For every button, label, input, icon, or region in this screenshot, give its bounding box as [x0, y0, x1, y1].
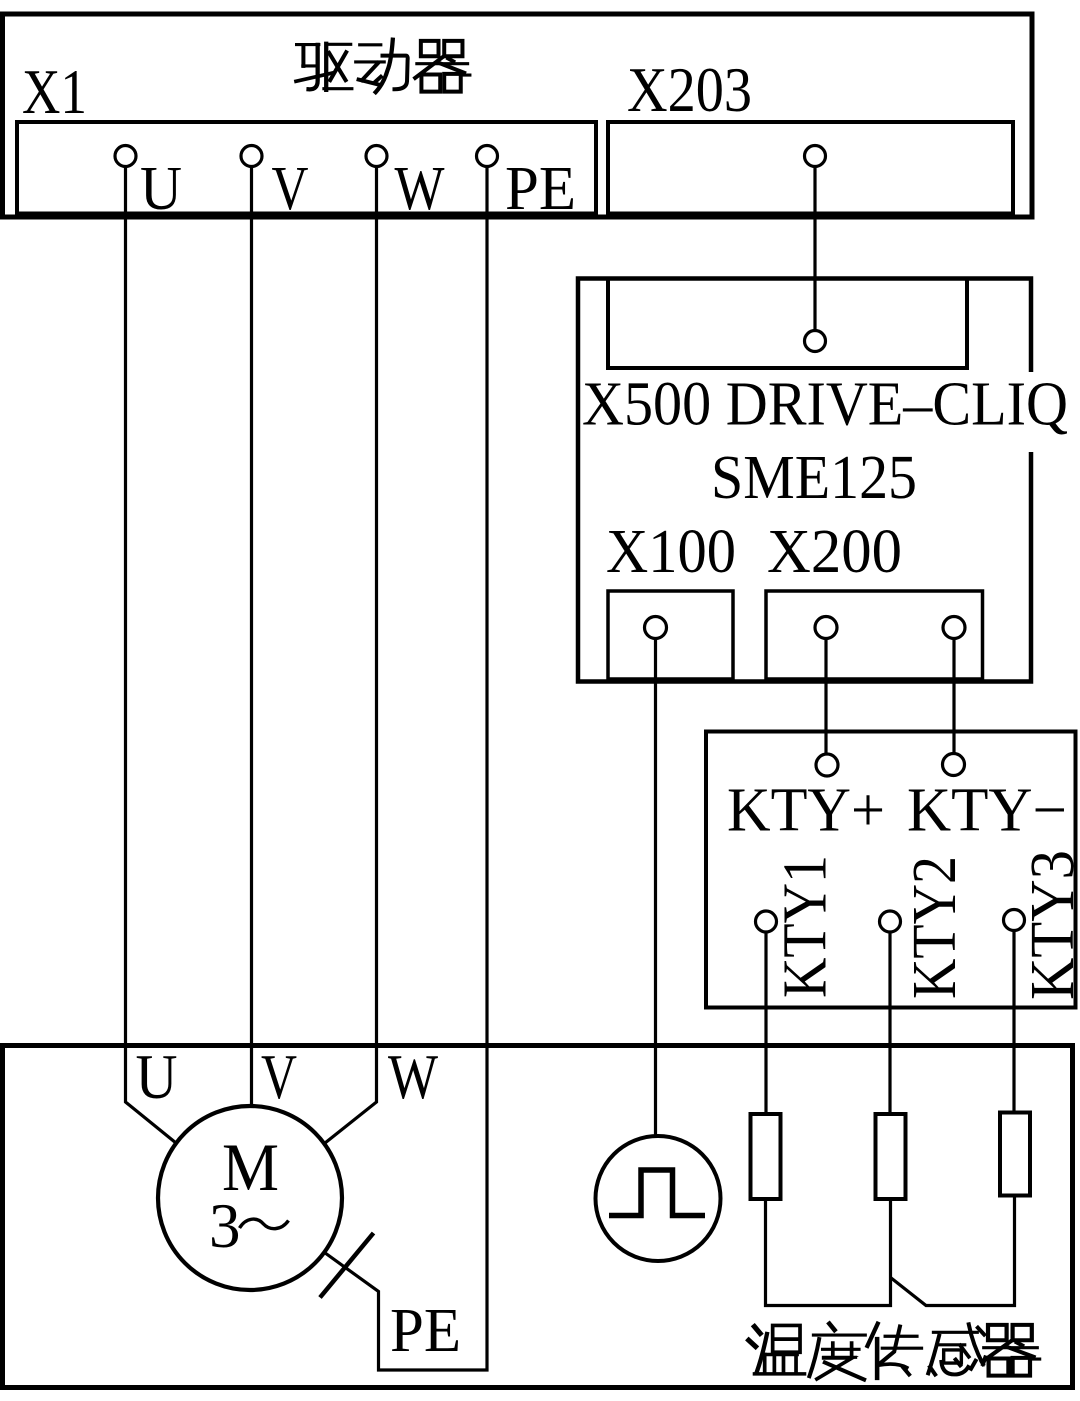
wire W: [325, 167, 377, 1144]
chassis slash: [320, 1233, 374, 1298]
wire KTY3 to R3: [1012, 931, 1015, 1114]
resistor R3: [1000, 1113, 1030, 1196]
svg-text:KTY1: KTY1: [772, 855, 840, 998]
svg-text:KTY−: KTY−: [907, 777, 1067, 845]
terminal X100: [645, 617, 667, 639]
svg-text:U: U: [136, 1042, 178, 1112]
wire X203 to X500: [813, 167, 816, 331]
terminal X203: [805, 146, 826, 167]
svg-text:X100: X100: [606, 518, 736, 586]
drive enclosure box: [3, 14, 1033, 217]
label 温度传感器 (temperature sensor): [749, 1325, 805, 1373]
X500 connector box: [606, 279, 969, 369]
svg-text:X1: X1: [22, 57, 87, 127]
X203 terminal box: [608, 122, 1013, 214]
encoder: [596, 1136, 721, 1261]
motor M: [158, 1106, 342, 1290]
svg-text:U: U: [140, 155, 182, 223]
svg-text:PE: PE: [390, 1297, 461, 1365]
pulse symbol: [609, 1170, 705, 1216]
terminal KTY+: [816, 754, 838, 776]
terminal U: [115, 146, 136, 167]
resistor R2: [876, 1114, 906, 1199]
wire R1 to R2 link: [766, 1199, 891, 1306]
sensor terminal box KTY: [706, 732, 1076, 1008]
terminal KTY-: [943, 754, 965, 776]
wire KTY2 to R2: [888, 932, 891, 1114]
svg-text:W: W: [388, 1042, 438, 1112]
X200 connector box: [766, 591, 983, 679]
terminal X500: [805, 331, 826, 352]
title 驱动器 (drive): [296, 44, 352, 90]
wire U: [126, 167, 177, 1144]
svg-text:SME125: SME125: [711, 444, 917, 512]
svg-text:KTY2: KTY2: [901, 856, 969, 999]
terminal X200 pin2: [943, 617, 965, 639]
X100 connector box: [608, 591, 733, 679]
label X500 DRIVE-CLIQ: [581, 372, 1069, 452]
motor and sensor enclosure box: [3, 1046, 1073, 1388]
wire X200 pin1 to KTY+: [824, 639, 827, 755]
svg-text:KTY3: KTY3: [1019, 850, 1080, 1000]
X1 terminal box: [17, 122, 596, 214]
svg-text:X500 DRIVE–CLIQ: X500 DRIVE–CLIQ: [582, 371, 1068, 439]
wire R2 branch to R3 link: [891, 1196, 1015, 1306]
wire X100 to encoder: [654, 639, 657, 1137]
wire PE: [325, 167, 488, 1371]
svg-text:V: V: [261, 1042, 297, 1112]
terminal X200 pin1: [815, 617, 837, 639]
terminal KTY2: [880, 911, 901, 932]
resistor R1: [751, 1114, 781, 1199]
svg-text:X203: X203: [627, 55, 752, 125]
terminal KTY1: [756, 911, 777, 932]
wire V: [250, 167, 253, 1107]
svg-text:KTY+: KTY+: [727, 777, 885, 845]
terminal PE: [477, 146, 498, 167]
svg-text:3: 3: [209, 1191, 241, 1261]
terminal W: [366, 146, 387, 167]
terminal KTY3: [1004, 910, 1025, 931]
svg-text:W: W: [395, 155, 445, 223]
svg-text:PE: PE: [505, 155, 576, 223]
svg-text:V: V: [272, 155, 309, 223]
svg-text:X200: X200: [767, 518, 902, 586]
terminal V: [241, 146, 262, 167]
SME125 module box: [578, 279, 1031, 682]
wire KTY1 to R1: [764, 932, 767, 1114]
wire X200 pin2 to KTY-: [952, 639, 955, 754]
